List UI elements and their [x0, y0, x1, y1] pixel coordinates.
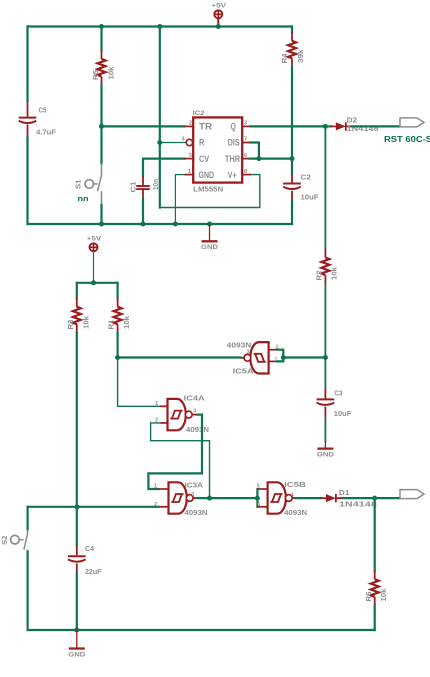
logic gate IC5B (NAND 4093N): [257, 482, 295, 513]
svg-text:8: 8: [244, 169, 247, 175]
pin number 3 (IC5A): [246, 350, 249, 356]
flag output (bottom): [400, 490, 424, 499]
svg-text:R4: R4: [280, 53, 289, 64]
svg-text:4093N: 4093N: [185, 508, 208, 517]
svg-text:R2: R2: [314, 271, 323, 281]
wire C4 bottom to GND rail: [76, 573, 78, 630]
svg-text:S2: S2: [0, 536, 9, 546]
svg-text:2: 2: [189, 121, 192, 127]
pin number 3 (IC4A): [193, 409, 196, 415]
wire IC4A pin1 net: [118, 358, 160, 407]
svg-text:10k: 10k: [329, 266, 338, 280]
svg-text:1N4148: 1N4148: [339, 499, 377, 508]
junction IC5B inputs: [255, 496, 260, 501]
junction D1 / R6: [372, 496, 377, 501]
IC2 pin stubs right: [242, 126, 251, 174]
wire IC5B input bracket: [256, 489, 258, 507]
value 10n (C1): [151, 179, 160, 190]
pin number 1 (IC3A): [154, 483, 157, 489]
svg-text:GND: GND: [201, 244, 218, 251]
wire TR (pin2) net: [102, 125, 185, 127]
svg-text:IC2: IC2: [193, 110, 206, 117]
svg-text:+5V: +5V: [211, 3, 227, 10]
svg-text:IC5B: IC5B: [284, 480, 307, 489]
wire left +5V branch (to C5 top): [26, 27, 28, 102]
junction GND rail / C1: [141, 222, 146, 227]
label D1: [339, 488, 350, 497]
logic gate IC3A (NAND 4093N): [158, 482, 196, 513]
pin number 8: [244, 169, 247, 175]
label IC4A: [184, 393, 206, 402]
wire S1 bottom to GND rail: [100, 205, 102, 224]
label C2: [301, 173, 312, 182]
wire R4 bottom to THR node: [291, 67, 293, 159]
label 4093N (IC5B): [284, 508, 307, 517]
wire TR node down to S1: [100, 126, 102, 163]
svg-text:R6: R6: [364, 592, 373, 602]
pin number 4 (IC5B): [291, 492, 295, 498]
junction IC3A out / IC4A pin2 wire: [207, 496, 212, 501]
wire C3 top: [324, 358, 326, 388]
wire CV (pin5) net: [143, 159, 185, 177]
pin number 6 (IC5B): [257, 502, 260, 508]
switch S2: [11, 530, 28, 552]
junction TR node: [99, 124, 104, 129]
ground (C3): [317, 442, 334, 459]
ground (bottom): [68, 630, 85, 658]
wire IC3A pin2 net: [28, 506, 159, 508]
wire R3 bottom down to S2 node: [76, 333, 78, 507]
svg-text:R1: R1: [107, 319, 116, 330]
wire S2 bottom to GND rail: [27, 552, 29, 631]
wire R2 bottom to IC5A input node: [324, 284, 326, 358]
value 4.7uF: [36, 128, 56, 137]
pin number 3: [244, 121, 247, 127]
value LM555N: [193, 185, 223, 194]
label C5: [39, 106, 48, 115]
svg-text:10k: 10k: [106, 66, 115, 80]
svg-text:4093N: 4093N: [186, 425, 209, 434]
capacitor C1: [136, 176, 150, 199]
wire C5 bottom to GND rail: [26, 137, 28, 224]
svg-text:10k: 10k: [122, 315, 131, 329]
wire IC5A input bracket: [277, 350, 325, 362]
wire D2 to flag: [352, 125, 400, 127]
svg-text:39k: 39k: [296, 49, 305, 63]
ground (top section): [201, 224, 218, 251]
svg-text:IC3A: IC3A: [185, 480, 204, 489]
svg-text:TR: TR: [199, 122, 212, 132]
logic gate IC4A (NAND 4093N): [160, 399, 198, 430]
label R5: [91, 69, 100, 80]
svg-text:Q: Q: [231, 122, 236, 132]
label R6: [364, 592, 373, 602]
svg-text:10n: 10n: [151, 179, 160, 190]
svg-text:R5: R5: [91, 69, 100, 80]
wire C3 bottom to GND: [324, 418, 326, 442]
junction R3/C4/S2 node: [75, 504, 80, 509]
wire +5V middle rail: [77, 282, 118, 284]
wire R2 vertical from Q junction: [324, 126, 326, 249]
svg-text:1: 1: [155, 401, 158, 407]
IC2 pin stubs left: [185, 126, 194, 174]
label 4093N (IC3A): [185, 508, 208, 517]
svg-text:10uF: 10uF: [301, 193, 319, 202]
label D2: [347, 115, 358, 124]
junction top rail / R5: [99, 24, 104, 29]
capacitor C3: [317, 388, 335, 418]
wire D1 to flag: [344, 497, 400, 499]
value 1N4148 (D1): [339, 499, 377, 508]
pin number 6: [244, 153, 247, 159]
svg-text:+5V: +5V: [87, 236, 103, 243]
wire IC3A pin2 node down-left vertical top: [27, 507, 29, 530]
wire R6 bottom to GND rail: [374, 606, 376, 631]
net label RST 60C-S: [384, 135, 430, 144]
resistor R2: [321, 249, 329, 284]
diode D2: [331, 122, 352, 130]
value 22uF (C4): [85, 567, 102, 576]
svg-text:DIS: DIS: [228, 138, 240, 148]
wire C1 bottom to GND rail: [142, 199, 144, 224]
IC2 pin 4 inversion bubble: [186, 139, 192, 145]
wire C4 top: [76, 507, 78, 545]
svg-text:GND: GND: [317, 451, 334, 458]
wire GND rail (top section): [28, 223, 293, 225]
value 10uF (C3): [334, 409, 352, 418]
wire +5V top rail: [28, 25, 293, 27]
power +5V (middle): [87, 236, 103, 283]
logic gate IC5A (mirrored NAND 4093N): [241, 342, 278, 373]
resistor R5: [98, 50, 106, 85]
pin number 3 (IC3A): [191, 492, 194, 498]
svg-text:D1: D1: [339, 488, 350, 497]
svg-text:4093N: 4093N: [227, 340, 252, 349]
pin number 1 (IC5A): [274, 357, 277, 363]
svg-text:4.7uF: 4.7uF: [36, 128, 56, 137]
wire R3 top: [76, 283, 78, 299]
svg-text:22uF: 22uF: [85, 567, 102, 576]
IC2 LM555N timer box: [193, 117, 242, 182]
pin label THR: [225, 154, 240, 164]
pin number 7: [244, 137, 247, 143]
junction GND rail / S1: [99, 222, 104, 227]
pin label DIS: [228, 138, 240, 148]
svg-text:GND: GND: [199, 170, 215, 180]
junction GND rail / GND symbol: [207, 222, 212, 227]
pin number 1: [188, 169, 191, 175]
label S1: [74, 179, 83, 189]
capacitor C5: [19, 101, 37, 137]
svg-text:S1: S1: [74, 179, 83, 189]
svg-text:GND: GND: [68, 651, 85, 658]
wire R1 bottom: [116, 333, 118, 358]
svg-text:7: 7: [244, 137, 247, 143]
diode D1: [321, 494, 344, 502]
junction R1 / IC5A output net: [115, 355, 120, 360]
junction IC5A inputs: [281, 355, 286, 360]
wire IC4A pin2 wrap to IC3A output: [151, 423, 210, 498]
svg-text:LM555N: LM555N: [193, 185, 223, 194]
svg-text:3: 3: [193, 409, 196, 415]
label 4093N (IC4A): [186, 425, 209, 434]
pin number 4: [182, 137, 186, 143]
wire THR net: [249, 158, 292, 160]
wire C2 bottom to GND rail corner: [291, 200, 293, 224]
svg-text:IC4A: IC4A: [184, 393, 206, 402]
label R4: [280, 53, 289, 64]
svg-text:3: 3: [191, 492, 194, 498]
label IC2: [193, 110, 206, 117]
value 10k (R2): [329, 266, 338, 280]
junction IC5A input node: [323, 355, 328, 360]
label S2: [0, 536, 9, 546]
svg-text:C5: C5: [39, 106, 48, 115]
svg-text:10uF: 10uF: [334, 409, 352, 418]
value 1N4148 (D2): [347, 124, 379, 133]
pin label TR: [199, 122, 212, 132]
svg-text:CV: CV: [199, 154, 210, 164]
junction Q / R2 branch: [323, 124, 328, 129]
wire R5 bottom to TR node: [100, 85, 102, 126]
wire R6 top: [374, 498, 376, 571]
pin number 1 (IC4A): [155, 401, 158, 407]
svg-text:6: 6: [257, 502, 260, 508]
resistor R4: [288, 32, 296, 67]
label C4: [85, 544, 95, 553]
pin number 5 (IC5B): [257, 483, 260, 489]
label IC3A: [185, 480, 204, 489]
wire Q (pin3) net: [251, 125, 331, 127]
value 39k (R4): [296, 49, 305, 63]
label IC5B: [284, 480, 307, 489]
value 10k (R3): [81, 315, 90, 329]
resistor R1: [114, 298, 122, 333]
pin number 5: [189, 153, 192, 159]
wire IC4A output wrap to IC3A pin1: [148, 415, 202, 489]
pin label GND: [199, 170, 215, 180]
value nn (S1): [78, 194, 89, 203]
value 10k (R6): [379, 588, 388, 602]
junction DIS/THR: [256, 156, 261, 161]
wire IC5B output to D1: [296, 497, 321, 499]
junction THR / R4-C2 vertical: [290, 156, 295, 161]
junction top rail / +5V vertical: [157, 24, 162, 29]
power +5V (top): [211, 3, 227, 27]
svg-text:RST 60C-S: RST 60C-S: [384, 135, 430, 144]
pin number 2 (IC3A): [154, 502, 157, 508]
svg-text:3: 3: [244, 121, 247, 127]
flag RST output: [400, 118, 424, 127]
label R2: [314, 271, 323, 281]
svg-text:1: 1: [188, 169, 191, 175]
wire +5V vertical to V+ wrap: [159, 27, 161, 208]
svg-text:V+: V+: [228, 170, 237, 180]
label IC5A: [233, 367, 255, 376]
value 10uF (C2): [301, 193, 319, 202]
svg-text:C4: C4: [85, 544, 95, 553]
value 10k (R1): [122, 315, 131, 329]
label C3: [335, 389, 343, 398]
svg-text:5: 5: [257, 483, 260, 489]
svg-text:R3: R3: [66, 320, 75, 330]
junction top rail / +5V stem: [216, 24, 221, 29]
svg-text:C1: C1: [129, 181, 138, 193]
resistor R3: [73, 298, 81, 333]
label R3: [66, 320, 75, 330]
wire DIS jog: [250, 143, 259, 159]
wire V+ wrap: [160, 175, 260, 208]
junction bottom rail / C4: [74, 628, 79, 633]
wire R4 top: [291, 27, 293, 33]
wire R5 top: [100, 27, 102, 51]
capacitor C4: [68, 545, 86, 573]
svg-text:6: 6: [244, 153, 247, 159]
label C1: [129, 181, 138, 193]
wire GND rail (bottom): [28, 629, 375, 631]
wire IC5A output net: [118, 356, 241, 358]
pin number 2: [189, 121, 192, 127]
svg-text:IC5A: IC5A: [233, 367, 255, 376]
wire GND pin (pin1) net: [175, 175, 184, 224]
wire IC3A output net: [197, 497, 257, 499]
pin label R: [199, 138, 205, 148]
wire THR node to C2: [291, 159, 293, 175]
svg-text:4093N: 4093N: [284, 508, 307, 517]
junction GND rail / pin1 wire: [173, 222, 178, 227]
label R1: [107, 319, 116, 330]
capacitor C2: [283, 174, 301, 200]
svg-text:C3: C3: [335, 389, 343, 398]
resistor R6: [371, 571, 379, 606]
svg-text:10k: 10k: [379, 588, 388, 602]
wire R pin (pin4) net: [160, 142, 186, 144]
wire R1 top: [116, 283, 118, 299]
junction middle rail / +5V stem: [91, 280, 96, 285]
pin label V+: [228, 170, 237, 180]
svg-text:R: R: [199, 138, 205, 148]
pin label CV: [199, 154, 210, 164]
svg-text:5: 5: [189, 153, 192, 159]
junction R pin net: [157, 140, 162, 145]
pin number 2 (IC5A): [275, 344, 278, 350]
svg-text:1: 1: [154, 483, 157, 489]
label 4093N (IC5A): [227, 340, 252, 349]
svg-text:3: 3: [246, 350, 249, 356]
pin number 2 (IC4A): [155, 418, 158, 424]
svg-text:THR: THR: [225, 154, 240, 164]
svg-text:C2: C2: [301, 173, 312, 182]
svg-text:10k: 10k: [81, 315, 90, 329]
switch S1: [85, 163, 102, 205]
value 10k (R5): [106, 66, 115, 80]
pin label Q: [231, 122, 236, 132]
svg-text:nn: nn: [78, 194, 89, 203]
